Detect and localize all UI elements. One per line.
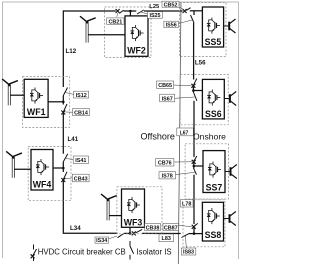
wire: WF2 turbine to box — [88, 34, 125, 36]
leader line IS34 — [108, 236, 117, 239]
svg-text:SS8: SS8 — [205, 230, 222, 240]
igbt icon SS6 — [207, 90, 220, 106]
svg-text:SS5: SS5 — [205, 37, 222, 47]
breaker CB43 X — [61, 178, 65, 182]
breaker CB65 X — [191, 84, 195, 88]
svg-text:L34: L34 — [70, 225, 81, 232]
wire: bus to L34 corner — [63, 181, 117, 234]
label box CB38 — [145, 223, 161, 231]
leader line CB14 — [66, 111, 73, 113]
label box L78 — [181, 200, 194, 208]
leader line IS78 — [176, 172, 195, 174]
leader line CB21 — [116, 13, 119, 17]
breaker CB76 X — [192, 160, 196, 164]
wire: L67 vertical — [193, 101, 195, 157]
label box CB43 — [72, 174, 89, 182]
svg-text:Offshore: Offshore — [141, 132, 175, 142]
wire: CB87 to SS8 junction — [193, 227, 195, 233]
leader line IS56 — [179, 20, 193, 24]
svg-text:L67: L67 — [180, 130, 189, 136]
igbt icon WF2 — [131, 25, 144, 41]
dashed box WF4 group — [28, 147, 71, 201]
svg-text:L12: L12 — [66, 48, 77, 55]
label box IS83 — [181, 248, 196, 256]
wire: right bus into SS5 — [194, 10, 202, 12]
dashed box WF1 group — [23, 77, 70, 128]
dashed box SS6 group — [180, 74, 228, 124]
node WF3 junction — [129, 232, 132, 235]
dashed box WF3 group — [117, 187, 162, 234]
wire: WF2 stub — [129, 11, 131, 16]
outer frame border — [3, 2, 239, 259]
leader line CB76 — [174, 161, 192, 163]
svg-text:L41: L41 — [68, 136, 79, 143]
breaker CB14 X — [61, 111, 65, 115]
wind turbine WF1 — [2, 79, 18, 106]
wire: WF1 turbine to box — [10, 94, 24, 96]
leader line CB87 — [179, 225, 192, 227]
breaker CB87 blade — [194, 223, 198, 226]
converter box SS5 — [202, 7, 223, 47]
breaker CB65 blade — [193, 79, 196, 86]
converter box WF1 — [24, 79, 48, 117]
wire: WF3 stub — [129, 227, 131, 233]
node WF2 junction — [129, 10, 132, 13]
svg-text:IS56: IS56 — [166, 23, 177, 29]
wire: L56 vertical — [193, 23, 195, 80]
breaker CB14 blade — [63, 104, 67, 112]
wire: IS25 to CB52 segment — [144, 10, 183, 12]
svg-text:IS67: IS67 — [162, 96, 173, 102]
label box IS25 — [148, 12, 163, 20]
breaker CB38 X — [132, 231, 136, 235]
svg-text:Onshore: Onshore — [193, 132, 226, 142]
svg-text:CB87: CB87 — [164, 225, 178, 231]
breaker CB38 blade — [136, 229, 143, 233]
igbt icon SS7 — [208, 162, 221, 178]
svg-text:L56: L56 — [195, 60, 206, 67]
wire+grid symbol SS8 — [224, 212, 236, 226]
svg-text:Isolator IS: Isolator IS — [137, 247, 172, 256]
svg-text:CB21: CB21 — [109, 19, 123, 25]
wind turbine WF4 — [6, 151, 22, 178]
node SS8 junction — [193, 232, 196, 235]
label box CB52 — [162, 1, 179, 8]
breaker CB52 X — [183, 9, 187, 13]
leader line IS25 — [141, 12, 148, 14]
breaker CB21 X — [116, 9, 120, 13]
label box CB21 — [107, 18, 124, 25]
wind turbine WF2 — [80, 16, 96, 43]
svg-text:IS78: IS78 — [162, 174, 173, 180]
svg-text:IS12: IS12 — [76, 93, 87, 99]
label box L67 — [177, 128, 194, 136]
label box CB76 — [156, 159, 174, 167]
wind turbine WF3 — [101, 194, 117, 221]
wire: L78 vertical — [193, 175, 195, 224]
wire: CB76 to SS7 junction — [193, 162, 195, 169]
svg-text:L83: L83 — [162, 236, 171, 242]
leader line IS83 — [185, 236, 188, 248]
wire: CB65 to SS6 junction — [192, 86, 194, 92]
breaker CB43 blade — [63, 172, 67, 180]
offshore/onshore boundary line — [178, 3, 181, 264]
wire: CB52 to SS5 corner — [190, 10, 194, 12]
breaker CB87 X — [192, 225, 196, 229]
isolator IS25 — [137, 10, 144, 14]
svg-text:SS7: SS7 — [206, 183, 223, 193]
node SS7 junction — [193, 165, 196, 168]
wire: WF4 box to bus — [53, 167, 63, 169]
converter box SS8 — [202, 202, 223, 241]
label box IS12 — [74, 91, 89, 99]
wire: bus IS12 to CB14 — [62, 96, 64, 105]
wire: L83 horizontal — [142, 232, 181, 234]
label box CB14 — [73, 109, 90, 117]
svg-text:L25: L25 — [149, 4, 160, 10]
breaker CB21 blade — [119, 10, 123, 13]
svg-text:L78: L78 — [182, 202, 191, 208]
wire: WF1 box to bus — [48, 101, 63, 103]
wire: SS7 box connection — [194, 165, 203, 167]
isolator IS78 — [194, 169, 197, 175]
label box IS34 — [95, 237, 109, 244]
wire: CB21 to WF2 stub segment — [124, 10, 137, 12]
isolator IS67 — [193, 92, 197, 101]
igbt icon WF3 — [127, 197, 140, 213]
svg-text:WF4: WF4 — [33, 180, 52, 190]
svg-text:WF3: WF3 — [124, 218, 143, 228]
label box CB87 — [163, 223, 179, 231]
dashed box WF2 group — [105, 7, 152, 58]
wire: IS83 to SS8 junction — [189, 233, 203, 235]
legend isolator symbol — [130, 241, 134, 260]
leader line IS41 — [66, 159, 73, 160]
converter box WF4 — [31, 150, 53, 191]
dashed box SS7 group — [185, 144, 228, 199]
isolator IS83 — [182, 234, 189, 238]
converter box SS6 — [202, 79, 224, 119]
svg-text:IS41: IS41 — [75, 158, 86, 164]
leader line IS12 — [66, 93, 74, 95]
leader line CB43 — [66, 178, 73, 179]
wire+grid symbol SS7 — [225, 165, 237, 179]
wire: SS5 bus down to IS56 — [193, 11, 195, 15]
label box IS78 — [159, 172, 176, 180]
svg-text:SS6: SS6 — [205, 109, 222, 119]
igbt icon SS5 — [207, 18, 220, 34]
igbt icon SS8 — [207, 208, 220, 224]
wire+grid symbol SS5 — [224, 19, 236, 33]
converter box SS7 — [203, 151, 225, 193]
svg-text:CB76: CB76 — [158, 161, 172, 167]
svg-text:CB38: CB38 — [146, 225, 160, 231]
svg-text:IS83: IS83 — [183, 250, 194, 256]
converter icon WF1 — [30, 88, 43, 104]
breaker CB52 blade — [186, 8, 190, 11]
svg-text:CB43: CB43 — [74, 176, 88, 182]
svg-text:WF1: WF1 — [27, 107, 46, 117]
svg-text:HVDC Circuit breaker CB: HVDC Circuit breaker CB — [38, 247, 126, 256]
svg-text:CB14: CB14 — [74, 110, 88, 116]
label box IS56 — [164, 21, 179, 28]
svg-text:CB65: CB65 — [158, 83, 172, 89]
svg-text:WF2: WF2 — [127, 46, 146, 56]
converter box WF3 — [122, 189, 145, 227]
isolator IS12 — [63, 88, 67, 96]
node WF1 junction — [62, 101, 65, 104]
isolator IS34 — [118, 233, 124, 237]
isolator IS56 — [191, 15, 195, 23]
wire: bus IS41 to CB43 — [62, 162, 64, 172]
wire+grid symbol SS6 — [224, 92, 236, 106]
svg-text:IS34: IS34 — [96, 238, 107, 244]
svg-text:CB52: CB52 — [164, 2, 178, 8]
leader line CB52 — [179, 7, 183, 10]
node WF4 junction — [62, 167, 65, 170]
label box CB65 — [157, 81, 174, 89]
wire: IS34 to WF3 junction — [124, 232, 132, 234]
leader line CB65 — [174, 84, 192, 87]
isolator IS41 — [63, 154, 68, 162]
dashed box SS8 group — [183, 200, 225, 247]
label box IS67 — [160, 94, 175, 102]
wire: bus L41 vertical — [62, 113, 64, 154]
converter box WF2 — [125, 16, 148, 56]
label box IS41 — [73, 156, 88, 164]
dashed box SS5 group — [180, 3, 227, 57]
svg-text:IS25: IS25 — [149, 13, 160, 19]
node SS6 junction — [192, 89, 195, 92]
wire: top link L12/L25 horizontal — [63, 10, 116, 12]
leader line IS67 — [175, 97, 195, 98]
breaker CB76 blade — [194, 156, 197, 161]
wire: left bus L12 vertical — [62, 10, 64, 87]
wire: WF3 turbine to box — [109, 215, 122, 217]
label box L83 — [159, 234, 174, 242]
igbt icon WF4 — [36, 159, 49, 175]
legend breaker symbol — [31, 245, 37, 262]
wire: SS6 box connection — [193, 90, 202, 92]
wire: WF4 turbine to box — [14, 168, 31, 170]
